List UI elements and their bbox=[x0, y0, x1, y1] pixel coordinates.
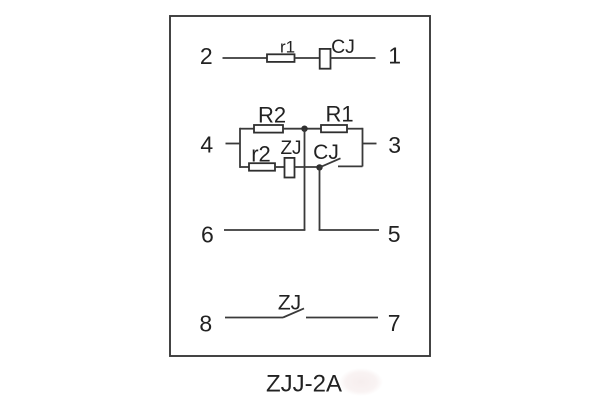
node junction bbox=[301, 126, 307, 132]
wire bbox=[295, 166, 320, 168]
wire bbox=[331, 57, 376, 59]
wire bbox=[240, 166, 249, 168]
svg-text:7: 7 bbox=[388, 310, 401, 336]
resistor R2 bbox=[254, 102, 286, 132]
wire bbox=[306, 317, 378, 319]
svg-text:5: 5 bbox=[388, 221, 401, 247]
wire bbox=[347, 128, 363, 130]
svg-text:1: 1 bbox=[388, 43, 401, 69]
wire bbox=[304, 129, 306, 230]
svg-text:4: 4 bbox=[200, 132, 213, 158]
svg-text:2: 2 bbox=[200, 43, 213, 69]
svg-text:ZJ: ZJ bbox=[280, 138, 301, 159]
coil CJ bbox=[320, 36, 355, 68]
wire bbox=[224, 229, 305, 231]
wire bbox=[283, 128, 321, 130]
svg-text:CJ: CJ bbox=[313, 141, 339, 164]
contact ZJ bbox=[278, 291, 304, 317]
wire bbox=[240, 128, 254, 130]
wire bbox=[319, 229, 379, 231]
svg-text:r2: r2 bbox=[251, 141, 271, 166]
wire bbox=[275, 166, 285, 168]
relay case outline bbox=[170, 16, 430, 356]
wire bbox=[223, 57, 268, 59]
svg-text:CJ: CJ bbox=[331, 36, 355, 58]
wire bbox=[362, 128, 364, 167]
resistor r1 bbox=[267, 38, 295, 62]
svg-text:8: 8 bbox=[199, 311, 212, 337]
resistor r2 bbox=[249, 141, 275, 170]
wire bbox=[239, 128, 241, 168]
resistor R1 bbox=[321, 102, 354, 133]
coil ZJ bbox=[280, 138, 301, 178]
wire bbox=[225, 317, 283, 319]
svg-text:ZJJ-2A: ZJJ-2A bbox=[266, 370, 342, 397]
svg-text:6: 6 bbox=[201, 222, 214, 248]
svg-text:3: 3 bbox=[388, 132, 401, 158]
wire bbox=[363, 143, 377, 145]
svg-text:ZJ: ZJ bbox=[278, 291, 301, 314]
wire bbox=[295, 57, 320, 59]
wire bbox=[226, 143, 241, 145]
contact CJ bbox=[313, 141, 340, 171]
wire bbox=[319, 167, 321, 230]
wire bbox=[338, 165, 363, 167]
svg-text:R1: R1 bbox=[325, 102, 353, 127]
svg-text:R2: R2 bbox=[258, 102, 286, 127]
svg-text:r1: r1 bbox=[280, 38, 295, 57]
